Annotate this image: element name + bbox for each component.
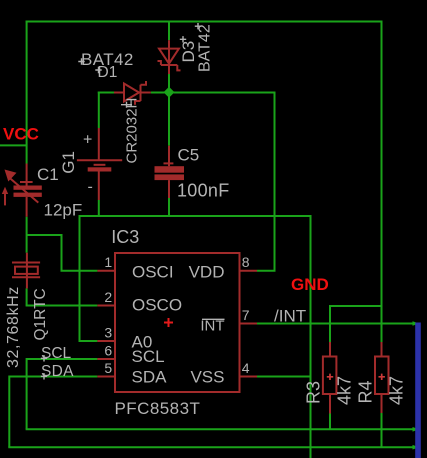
label BAT42 of D3 rotated	[197, 24, 214, 72]
cross SDA origin	[41, 373, 47, 379]
label PFC8583T	[115, 399, 201, 418]
svg-text:PFC8583T: PFC8583T	[115, 399, 201, 418]
wire SCL bottom horizontal to bus	[26, 427, 420, 432]
pin number 4	[242, 360, 250, 376]
wire top rail	[26, 21, 382, 23]
label Q1RTC rotated	[32, 288, 49, 340]
label 32,768kHz rotated	[5, 286, 22, 368]
IC3 origin cross	[164, 318, 173, 327]
wire VDD node horizontal	[174, 92, 275, 94]
wire node to C5	[168, 97, 170, 146]
wire ground vertical	[310, 215, 312, 458]
diode D1 BAT42	[114, 81, 151, 105]
svg-text:GND: GND	[291, 275, 329, 294]
svg-text:BAT42: BAT42	[197, 24, 214, 72]
label 12pF	[44, 201, 83, 220]
svg-text:VSS: VSS	[190, 367, 224, 386]
wire VCC rail vertical	[26, 21, 28, 164]
svg-text:SCL: SCL	[132, 347, 165, 366]
wire G1 bottom	[98, 200, 100, 216]
svg-text:OSCO: OSCO	[132, 295, 182, 314]
svg-text:1: 1	[104, 254, 112, 270]
pin number 3	[104, 325, 112, 341]
wire SDA bottom horizontal to bus	[8, 445, 419, 450]
label GND	[291, 275, 329, 294]
svg-text:8: 8	[242, 254, 250, 270]
svg-text:VDD: VDD	[189, 263, 225, 282]
svg-text:OSCI: OSCI	[132, 263, 174, 282]
svg-text:IC3: IC3	[111, 227, 139, 247]
wire OSCI branch vertical	[61, 234, 63, 271]
label VCC	[3, 125, 39, 144]
wire A0 rail vertical	[79, 215, 81, 341]
pin 6 stub	[97, 358, 115, 360]
wire VDD vertical	[274, 92, 276, 271]
pin name SDA	[132, 367, 168, 386]
label C1	[37, 165, 59, 184]
svg-text:R3: R3	[304, 381, 324, 404]
svg-text:/INT: /INT	[274, 307, 306, 326]
svg-text:Q1RTC: Q1RTC	[32, 288, 49, 340]
svg-text:+: +	[83, 132, 92, 149]
svg-text:-: -	[88, 179, 93, 196]
pin number 2	[104, 289, 112, 305]
pin 7 stub	[240, 323, 258, 325]
label battery plus	[83, 132, 92, 149]
pin name VSS	[190, 367, 224, 386]
cross D3 origin	[180, 36, 186, 42]
wire crystal bottom	[26, 288, 28, 305]
wire R3 top vertical	[329, 305, 331, 342]
label battery minus	[88, 179, 93, 196]
pin name A0	[132, 333, 153, 352]
resistor R3	[323, 342, 337, 414]
svg-text:6: 6	[104, 343, 112, 359]
crystal Q1	[12, 253, 40, 289]
svg-text:G1: G1	[59, 151, 78, 174]
svg-text:SDA: SDA	[132, 367, 168, 386]
wire pin 4 VSS to ground	[257, 376, 311, 378]
pin number 6	[104, 343, 112, 359]
wire SDA vertical	[8, 376, 10, 448]
wire R3 top branch horizontal	[330, 305, 382, 307]
label CR2032H rotated	[124, 98, 141, 164]
wire to D1 anode	[98, 92, 114, 94]
wire SCL vertical	[26, 358, 28, 429]
wire ground horizontal	[80, 215, 311, 217]
svg-text:D3: D3	[179, 41, 198, 63]
pin number 7	[242, 307, 250, 323]
cross SCL origin	[41, 355, 47, 361]
pin number 1	[104, 254, 112, 270]
label G1 rotated	[59, 151, 78, 174]
capacitor C1 trimmer	[2, 164, 42, 217]
wire R4 bottom vertical	[381, 413, 383, 447]
svg-text:SCL: SCL	[41, 345, 72, 362]
svg-text:5: 5	[104, 360, 112, 376]
pin number 5	[104, 360, 112, 376]
pin 3 stub	[97, 340, 115, 342]
svg-text:4: 4	[242, 360, 250, 376]
svg-text:100nF: 100nF	[177, 180, 230, 200]
svg-text:INT: INT	[200, 318, 224, 335]
label 100nF	[177, 180, 230, 200]
label IC3	[111, 227, 139, 247]
svg-text:4k7: 4k7	[335, 376, 355, 405]
label /INT net	[274, 307, 306, 326]
wire C5 bottom	[168, 198, 170, 216]
diode D3 BAT42	[158, 40, 181, 74]
cross D1 origin	[121, 102, 132, 108]
pin name SCL	[132, 347, 165, 366]
label 4k7 of R3 rotated	[335, 376, 355, 405]
junction VDD node	[164, 87, 175, 98]
svg-text:R4: R4	[356, 380, 376, 403]
wire to pin 3 A0	[79, 340, 98, 342]
svg-text:2: 2	[104, 289, 112, 305]
label D3 rotated	[179, 41, 198, 63]
pin name INT with overline	[200, 318, 224, 335]
label D1	[98, 64, 118, 81]
pin name VDD	[189, 263, 225, 282]
IC3 box outline U1	[115, 253, 240, 392]
cross D1 value origin	[78, 58, 84, 64]
svg-text:CR2032H: CR2032H	[124, 98, 141, 164]
pin name OSCI	[132, 263, 174, 282]
label BAT42 of D1	[81, 50, 134, 69]
bus B1	[415, 323, 421, 458]
wire SCL from pin 6	[27, 358, 98, 360]
wire D1 cathode to node	[151, 92, 165, 94]
wire OSCI branch horizontal	[27, 234, 62, 236]
wire C1 to crystal	[26, 217, 28, 253]
resistor R4	[375, 342, 389, 413]
wire left VCC stub	[0, 144, 27, 146]
wire R3 bottom vertical	[329, 414, 331, 430]
wire /INT to bus	[257, 321, 419, 326]
pin name OSCO	[132, 295, 182, 314]
wire to pin 8 VDD	[257, 270, 276, 272]
label R3 rotated	[304, 381, 324, 404]
svg-text:VCC: VCC	[3, 125, 39, 144]
wire G1 top vertical	[98, 92, 100, 129]
wire to pin 1 OSCI	[61, 270, 98, 272]
svg-text:C1: C1	[37, 165, 59, 184]
wire right VCC rail vertical	[381, 21, 383, 343]
svg-text:32,768kHz: 32,768kHz	[5, 286, 22, 368]
pin 1 stub	[97, 270, 115, 272]
cross D3 value origin	[195, 23, 201, 29]
svg-text:3: 3	[104, 325, 112, 341]
svg-text:SDA: SDA	[41, 363, 74, 380]
wire D3 top	[168, 22, 170, 41]
label C5	[178, 146, 200, 165]
svg-text:D1: D1	[98, 64, 118, 81]
pin 8 stub	[240, 270, 258, 272]
svg-text:12pF: 12pF	[44, 201, 83, 220]
pin number 8	[242, 254, 250, 270]
label 4k7 of R4 rotated	[387, 376, 407, 405]
wire to pin 2 OSCO	[26, 305, 98, 307]
svg-text:C5: C5	[178, 146, 200, 165]
label SDA net	[41, 363, 74, 380]
svg-text:4k7: 4k7	[387, 376, 407, 405]
wire D3 bottom to node	[168, 74, 170, 89]
battery G1	[77, 128, 122, 200]
cross D1 name origin	[95, 67, 101, 73]
pin 5 stub	[97, 376, 115, 378]
pin 2 stub	[97, 305, 115, 307]
capacitor C5	[155, 146, 185, 198]
label R4 rotated	[356, 380, 376, 403]
wire SDA from pin 5	[9, 376, 97, 378]
label SCL net	[41, 345, 72, 362]
svg-text:7: 7	[242, 307, 250, 323]
pin 4 stub	[240, 376, 258, 378]
